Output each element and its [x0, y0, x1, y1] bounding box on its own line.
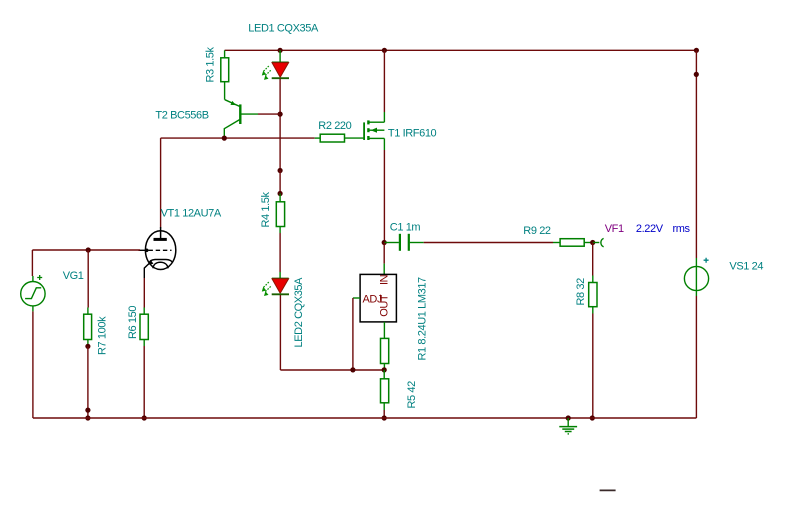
svg-text:R7 100k: R7 100k [97, 316, 109, 355]
wire T1 drain to top rail [383, 50, 385, 112]
wire right vertical to VS1 [695, 50, 697, 258]
resistor R1 [381, 322, 389, 370]
LED LED1 CQX35A [248, 23, 319, 80]
node R7 top junction [86, 247, 91, 252]
svg-text:T1 IRF610: T1 IRF610 [388, 128, 437, 140]
svg-text:R5 42: R5 42 [406, 381, 418, 409]
svg-text:R9 22: R9 22 [523, 225, 551, 237]
wire stray dash [600, 489, 616, 491]
wire ADJ down [352, 298, 354, 370]
wire C1 to R9 [424, 242, 553, 244]
svg-text:LED1 CQX35A: LED1 CQX35A [248, 23, 319, 35]
wire R7 to bottom rail [87, 346, 89, 418]
wire LED2 to ADJ node [280, 369, 384, 371]
node T2 base junction [278, 112, 283, 117]
wire LED2 cathode down [279, 295, 281, 370]
svg-text:R3 1.5k: R3 1.5k [205, 46, 217, 82]
svg-text:C1 1m: C1 1m [390, 221, 421, 233]
resistor R6 [127, 306, 148, 346]
wire T2 base to LED1 column [258, 113, 280, 115]
svg-text:VF1: VF1 [605, 223, 624, 235]
node above rail [85, 408, 90, 413]
wire between dots [279, 171, 281, 194]
LED LED2 CQX35A [262, 272, 305, 348]
resistor R9 [523, 225, 592, 246]
wire bottom rail [33, 417, 697, 419]
op-amp U1 LM317 [360, 274, 428, 360]
wire top rail [225, 49, 697, 51]
wire R7 column [87, 250, 89, 308]
wire tube plate vertical [160, 138, 162, 227]
node top rail / LED1 anode junction [278, 48, 283, 53]
resistor R3 [205, 46, 229, 99]
svg-text:R8 32: R8 32 [575, 278, 587, 306]
resistor R5 [381, 370, 419, 410]
resistor R7 [84, 308, 109, 356]
tube VT1 12AU7A [139, 208, 222, 279]
svg-text:VS1 24: VS1 24 [729, 260, 763, 272]
wire VS1 bottom [695, 296, 697, 418]
node R9/R8 junction [590, 240, 595, 245]
node R7 bottom dot [85, 344, 90, 349]
svg-text:OUT: OUT [379, 294, 391, 317]
source VG1 [21, 270, 84, 311]
resistor R8 [575, 276, 597, 314]
wire ADJ lead [353, 297, 360, 299]
transistor T1 IRF610 [364, 112, 436, 150]
node top rail / T1 drain junction [382, 48, 387, 53]
node ADJ junction [350, 367, 355, 372]
svg-text:R2 220: R2 220 [318, 120, 351, 132]
wire R6 to bottom rail [143, 346, 145, 418]
wire VG1 bottom vertical [32, 311, 34, 418]
wire VG1 top horizontal [32, 249, 140, 251]
wire plate-row horizontal [161, 137, 315, 139]
node R7 rail junction [85, 415, 90, 420]
node C1 junction [382, 240, 387, 245]
svg-text:R1 8.24U1 LM317: R1 8.24U1 LM317 [417, 277, 429, 361]
svg-text:rms: rms [673, 223, 691, 235]
transistor T2 BC556B [155, 100, 258, 138]
ground [559, 418, 577, 434]
svg-text:T2 BC556B: T2 BC556B [155, 109, 208, 121]
svg-text:2.22V: 2.22V [636, 223, 664, 235]
wire LED1 cathode down [279, 79, 281, 171]
wire R5 to rail [383, 410, 385, 418]
svg-text:R6 150: R6 150 [127, 306, 139, 339]
node R5 rail junction [382, 415, 387, 420]
terminal VF1 [593, 223, 691, 247]
wire R8 to rail [592, 314, 594, 419]
svg-text:R4 1.5k: R4 1.5k [260, 191, 272, 227]
wire R8 top [592, 243, 594, 276]
node R1/R5 junction [382, 367, 387, 372]
resistor R2 [315, 120, 364, 142]
source VS1 24 [684, 258, 763, 296]
svg-text:VG1: VG1 [63, 270, 84, 282]
svg-text:LED2 CQX35A: LED2 CQX35A [293, 277, 305, 348]
wire T1 source down [383, 150, 385, 243]
svg-text:VT1 12AU7A: VT1 12AU7A [161, 208, 222, 220]
resistor R4 [260, 191, 285, 233]
node R8 rail junction [590, 415, 595, 420]
wire VG1 top vertical [31, 250, 33, 276]
node R6 rail junction [142, 415, 147, 420]
node top rail right corner [694, 48, 699, 53]
node right vertical junction [694, 72, 699, 77]
node T2 collector junction [222, 136, 227, 141]
svg-text:IN: IN [379, 274, 391, 285]
node R4 top dots [278, 168, 283, 173]
wire cathode to R6 [143, 278, 145, 308]
wire IN lead [383, 243, 385, 275]
node R4 lead dot [278, 191, 283, 196]
wire R4 to LED2 [279, 233, 281, 272]
capacitor C1 [384, 221, 424, 251]
node ground junction [566, 415, 571, 420]
